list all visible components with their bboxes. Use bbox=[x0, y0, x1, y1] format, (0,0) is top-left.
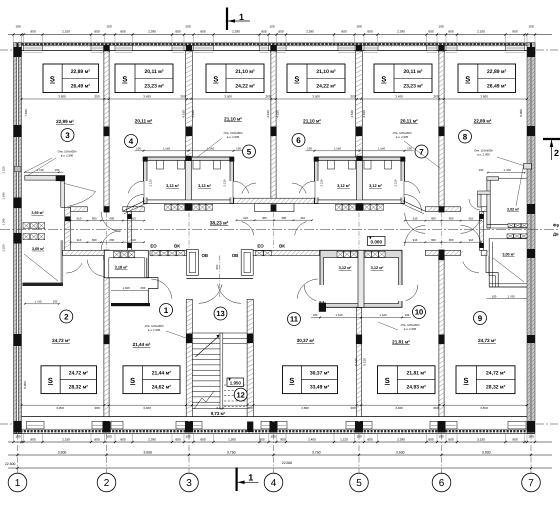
svg-text:3.600: 3.600 bbox=[58, 95, 66, 99]
svg-text:3,00 м²: 3,00 м² bbox=[502, 252, 515, 256]
svg-text:1.780: 1.780 bbox=[508, 294, 515, 298]
svg-text:600: 600 bbox=[175, 30, 180, 34]
svg-text:600: 600 bbox=[120, 30, 125, 34]
svg-text:30,37 м²: 30,37 м² bbox=[297, 338, 315, 343]
svg-text:26,49 м²: 26,49 м² bbox=[71, 83, 91, 89]
corridor lower wall bbox=[63, 250, 105, 255]
svg-text:100: 100 bbox=[270, 434, 275, 438]
svg-text:3: 3 bbox=[186, 478, 192, 489]
door arc top room3 bbox=[127, 195, 144, 212]
stairwell stairs bbox=[186, 278, 253, 280]
corridor dims right bbox=[405, 220, 482, 222]
svg-text:3.500: 3.500 bbox=[224, 95, 232, 99]
svg-text:600: 600 bbox=[448, 437, 453, 441]
axis circle 6 bbox=[432, 473, 451, 492]
svg-text:0.000: 0.000 bbox=[371, 239, 383, 244]
svg-text:4.630: 4.630 bbox=[275, 110, 279, 118]
svg-text:3,12 м²: 3,12 м² bbox=[339, 265, 353, 270]
svg-text:S: S bbox=[464, 376, 469, 385]
svg-text:3.750: 3.750 bbox=[227, 451, 236, 455]
wall axis3 upper bbox=[186, 51, 193, 157]
svg-text:1.540: 1.540 bbox=[207, 146, 214, 150]
svg-text:24,72 м²: 24,72 м² bbox=[52, 338, 70, 343]
svg-text:100: 100 bbox=[528, 25, 533, 29]
svg-text:1.540: 1.540 bbox=[2, 192, 6, 199]
svg-text:10: 10 bbox=[415, 308, 423, 317]
svg-text:900: 900 bbox=[280, 437, 285, 441]
svg-text:1.740: 1.740 bbox=[37, 168, 44, 172]
svg-text:3.400: 3.400 bbox=[143, 95, 151, 99]
svg-text:1: 1 bbox=[239, 12, 244, 22]
svg-text:600: 600 bbox=[110, 238, 115, 242]
level mark 0.000 bbox=[368, 237, 386, 246]
svg-text:21,10 м²: 21,10 м² bbox=[316, 69, 336, 75]
door arc room11 bbox=[297, 279, 318, 299]
svg-text:100: 100 bbox=[438, 434, 443, 438]
svg-text:13: 13 bbox=[216, 309, 224, 318]
svg-text:3,12 м²: 3,12 м² bbox=[369, 183, 383, 188]
svg-text:100: 100 bbox=[53, 299, 58, 303]
svg-text:600: 600 bbox=[200, 437, 205, 441]
svg-text:600: 600 bbox=[120, 437, 125, 441]
svg-text:910: 910 bbox=[413, 238, 418, 242]
svg-text:1.300: 1.300 bbox=[228, 437, 236, 441]
svg-text:2.130: 2.130 bbox=[320, 179, 324, 186]
room9 corner step walls bbox=[486, 256, 498, 287]
table apt bot-3 bbox=[283, 366, 338, 394]
svg-text:S: S bbox=[213, 75, 218, 84]
svg-text:22,89 м²: 22,89 м² bbox=[71, 69, 91, 75]
svg-text:3.650: 3.650 bbox=[480, 406, 488, 410]
svg-text:2.280: 2.280 bbox=[148, 30, 156, 34]
axis circle 7 bbox=[522, 473, 541, 492]
svg-text:33,49 м²: 33,49 м² bbox=[310, 385, 330, 391]
svg-text:24,22 м²: 24,22 м² bbox=[235, 83, 255, 89]
svg-text:100: 100 bbox=[15, 434, 20, 438]
left wall rooms 3,69 bbox=[25, 176, 65, 181]
svg-text:1.240: 1.240 bbox=[2, 218, 6, 225]
svg-text:1.540: 1.540 bbox=[334, 146, 341, 150]
svg-text:3.750: 3.750 bbox=[312, 451, 321, 455]
bottom wall inner face bbox=[22, 416, 528, 418]
svg-text:Фр: Фр bbox=[553, 223, 560, 228]
svg-text:100: 100 bbox=[307, 146, 312, 150]
svg-text:2.220: 2.220 bbox=[2, 166, 6, 173]
svg-text:1: 1 bbox=[15, 478, 21, 489]
svg-text:600: 600 bbox=[261, 30, 266, 34]
svg-text:S: S bbox=[50, 75, 55, 84]
svg-text:8.980: 8.980 bbox=[519, 109, 523, 117]
svg-text:ОВ: ОВ bbox=[202, 253, 209, 258]
axis line bottom left poke bbox=[0, 423, 13, 425]
svg-text:600: 600 bbox=[92, 238, 97, 242]
left wall columns bbox=[14, 47, 22, 57]
svg-text:Дв: Дв bbox=[553, 232, 559, 237]
room circle 5 bbox=[243, 145, 256, 158]
svg-text:S: S bbox=[385, 376, 390, 385]
svg-text:ЕО: ЕО bbox=[257, 244, 264, 249]
left wall bbox=[14, 43, 17, 434]
svg-text:4.630: 4.630 bbox=[350, 110, 354, 118]
svg-text:ЕО: ЕО bbox=[150, 244, 157, 249]
interior wall columns bbox=[103, 127, 109, 137]
svg-text:4.630: 4.630 bbox=[266, 110, 270, 118]
wall axis2 lower bbox=[104, 250, 109, 417]
svg-text:200: 200 bbox=[350, 95, 355, 99]
svg-text:100: 100 bbox=[106, 25, 111, 29]
stair shaft left bbox=[186, 250, 198, 276]
table apt top-2 bbox=[115, 64, 173, 93]
axis circle 5 bbox=[350, 473, 369, 492]
top wall inner face bbox=[22, 50, 528, 52]
room circle 1 bbox=[160, 304, 173, 317]
bottom chain 1 bbox=[8, 441, 552, 443]
door arc room9 bbox=[463, 261, 479, 272]
axis circle 1 bbox=[8, 473, 27, 492]
svg-text:600: 600 bbox=[278, 30, 283, 34]
room circle 7 bbox=[415, 145, 428, 158]
svg-text:2.280: 2.280 bbox=[306, 30, 314, 34]
svg-text:28,32 м²: 28,32 м² bbox=[486, 385, 506, 391]
svg-text:4: 4 bbox=[271, 478, 277, 489]
svg-text:в.о. 2.900: в.о. 2.900 bbox=[396, 135, 409, 139]
axis line top right bbox=[536, 49, 560, 51]
svg-text:в.о. 2.900: в.о. 2.900 bbox=[404, 327, 417, 331]
svg-text:100: 100 bbox=[185, 434, 190, 438]
svg-text:600: 600 bbox=[94, 437, 99, 441]
svg-text:3.950: 3.950 bbox=[56, 406, 64, 410]
wall axis5 upper bbox=[356, 51, 363, 157]
svg-text:600: 600 bbox=[449, 238, 454, 242]
center hall walls bbox=[234, 198, 314, 204]
svg-text:3.600: 3.600 bbox=[480, 95, 488, 99]
svg-text:2.400: 2.400 bbox=[308, 437, 316, 441]
svg-text:3.500: 3.500 bbox=[312, 95, 320, 99]
bottom wall window boxes bbox=[27, 421, 45, 429]
svg-text:900: 900 bbox=[215, 264, 219, 269]
svg-text:100: 100 bbox=[106, 434, 111, 438]
svg-text:600: 600 bbox=[92, 216, 97, 220]
svg-text:100: 100 bbox=[356, 25, 361, 29]
axis line top left bbox=[0, 49, 13, 51]
right wall bbox=[527, 43, 530, 434]
svg-text:3,12 м²: 3,12 м² bbox=[198, 183, 212, 188]
axis line bottom pokes bbox=[536, 423, 560, 425]
svg-text:910: 910 bbox=[77, 238, 82, 242]
door arc top room8 bbox=[405, 195, 422, 212]
bottom chain 3 bbox=[8, 467, 552, 469]
table apt top-6 bbox=[458, 64, 516, 93]
table apt top-5 bbox=[374, 64, 432, 93]
svg-text:1.540: 1.540 bbox=[378, 146, 385, 150]
svg-text:600: 600 bbox=[428, 30, 433, 34]
svg-text:100: 100 bbox=[407, 146, 412, 150]
svg-text:2.220: 2.220 bbox=[2, 244, 6, 251]
corridor dims left bbox=[71, 220, 145, 222]
svg-text:600: 600 bbox=[94, 30, 99, 34]
svg-text:30,37 м²: 30,37 м² bbox=[310, 371, 330, 377]
wall axis6 lower bbox=[439, 250, 444, 417]
svg-text:5: 5 bbox=[356, 478, 362, 489]
svg-text:200: 200 bbox=[94, 406, 99, 410]
svg-text:S: S bbox=[130, 376, 135, 385]
svg-text:3.400: 3.400 bbox=[143, 406, 151, 410]
svg-text:900: 900 bbox=[30, 30, 35, 34]
axis circle 4 bbox=[264, 473, 283, 492]
svg-text:S: S bbox=[289, 376, 294, 385]
svg-text:S: S bbox=[122, 75, 127, 84]
svg-text:24,72 м²: 24,72 м² bbox=[69, 371, 89, 377]
svg-text:1.540: 1.540 bbox=[336, 313, 343, 317]
door arc right room upper bbox=[469, 199, 480, 210]
svg-text:2.280: 2.280 bbox=[148, 437, 156, 441]
top wall texture bbox=[43, 45, 92, 47]
svg-text:22.600: 22.600 bbox=[282, 461, 292, 465]
svg-text:1.590: 1.590 bbox=[123, 286, 130, 290]
table apt top-1 bbox=[43, 64, 99, 93]
svg-text:ВК: ВК bbox=[279, 244, 285, 249]
svg-text:100: 100 bbox=[136, 146, 141, 150]
svg-text:100: 100 bbox=[55, 168, 60, 172]
wall axis5 lower bbox=[356, 308, 361, 417]
room circle 9 bbox=[474, 312, 487, 325]
svg-text:21,81 м²: 21,81 м² bbox=[407, 371, 427, 377]
svg-text:600: 600 bbox=[448, 30, 453, 34]
svg-text:200: 200 bbox=[350, 406, 355, 410]
svg-text:600: 600 bbox=[341, 30, 346, 34]
svg-text:21,10 м²: 21,10 м² bbox=[224, 117, 242, 122]
section mark 1 bottom bbox=[236, 468, 238, 492]
svg-text:22.600: 22.600 bbox=[5, 462, 15, 466]
svg-text:910: 910 bbox=[131, 238, 136, 242]
svg-text:4.630: 4.630 bbox=[182, 110, 186, 118]
svg-text:12: 12 bbox=[237, 390, 245, 399]
svg-text:3,69 м²: 3,69 м² bbox=[31, 211, 44, 215]
svg-text:3.900: 3.900 bbox=[58, 451, 67, 455]
svg-text:910: 910 bbox=[469, 216, 474, 220]
svg-text:910: 910 bbox=[300, 216, 305, 220]
svg-text:100: 100 bbox=[185, 25, 190, 29]
svg-text:в.о. 2.900: в.о. 2.900 bbox=[477, 153, 490, 157]
svg-text:200: 200 bbox=[433, 406, 438, 410]
svg-text:20,11 м²: 20,11 м² bbox=[400, 119, 418, 124]
svg-text:20,11 м²: 20,11 м² bbox=[145, 69, 164, 75]
svg-text:200: 200 bbox=[433, 95, 438, 99]
stair shaft right bbox=[241, 250, 253, 276]
svg-text:S: S bbox=[381, 75, 386, 84]
svg-text:24,72 м²: 24,72 м² bbox=[478, 338, 496, 343]
wall axis2 upper bbox=[104, 51, 109, 212]
svg-text:3.400: 3.400 bbox=[395, 406, 403, 410]
svg-text:200: 200 bbox=[94, 95, 99, 99]
svg-text:6: 6 bbox=[439, 478, 445, 489]
svg-text:2.130: 2.130 bbox=[394, 179, 398, 186]
svg-text:20,11 м²: 20,11 м² bbox=[404, 69, 423, 75]
svg-text:900: 900 bbox=[259, 437, 264, 441]
axis circle 3 bbox=[180, 473, 199, 492]
svg-text:3,18 м²: 3,18 м² bbox=[115, 265, 129, 270]
svg-text:910: 910 bbox=[131, 216, 136, 220]
svg-text:910: 910 bbox=[469, 238, 474, 242]
svg-text:21,44 м²: 21,44 м² bbox=[133, 342, 151, 347]
svg-text:5: 5 bbox=[247, 147, 252, 156]
room circle 4 bbox=[125, 135, 138, 148]
svg-text:4.630: 4.630 bbox=[362, 110, 366, 118]
svg-text:1.540: 1.540 bbox=[163, 146, 170, 150]
svg-text:8: 8 bbox=[463, 132, 468, 141]
svg-text:200: 200 bbox=[180, 95, 185, 99]
svg-text:24,22 м²: 24,22 м² bbox=[316, 83, 336, 89]
bottom rooms dimension line bbox=[22, 404, 528, 406]
svg-text:1.780: 1.780 bbox=[504, 168, 511, 172]
svg-text:100: 100 bbox=[405, 313, 410, 317]
svg-text:900: 900 bbox=[512, 437, 517, 441]
svg-text:910: 910 bbox=[413, 216, 418, 220]
svg-text:5.130: 5.130 bbox=[363, 358, 367, 366]
corridor vestibule wall left bbox=[65, 207, 71, 252]
svg-text:3,12 м²: 3,12 м² bbox=[337, 183, 351, 188]
door arc room3 entry bbox=[68, 192, 96, 207]
svg-text:4: 4 bbox=[129, 137, 134, 146]
top dimension chain bbox=[8, 34, 552, 36]
svg-text:1,950: 1,950 bbox=[230, 381, 242, 386]
top wall window boxes bbox=[24, 45, 43, 50]
svg-text:2.100: 2.100 bbox=[62, 30, 70, 34]
svg-text:ОВ: ОВ bbox=[232, 253, 239, 258]
svg-text:1.540: 1.540 bbox=[380, 313, 387, 317]
table apt top-3 bbox=[206, 64, 264, 93]
svg-text:600: 600 bbox=[282, 216, 287, 220]
svg-text:2.130: 2.130 bbox=[149, 179, 153, 186]
bottom wall band bbox=[14, 428, 536, 430]
svg-text:21,10 м²: 21,10 м² bbox=[235, 69, 255, 75]
svg-text:23,23 м²: 23,23 м² bbox=[144, 83, 164, 89]
svg-text:7: 7 bbox=[528, 478, 534, 489]
svg-text:2.280: 2.280 bbox=[397, 30, 405, 34]
bathroom cluster upper axis5 bbox=[315, 157, 405, 204]
svg-text:2: 2 bbox=[554, 148, 559, 158]
svg-text:38,23 м²: 38,23 м² bbox=[210, 221, 229, 227]
top wall outer band bbox=[14, 42, 536, 44]
room 3,69 lower extension bbox=[60, 240, 62, 285]
svg-text:100: 100 bbox=[438, 25, 443, 29]
vent right wall bbox=[524, 164, 532, 170]
room circle 8 bbox=[459, 130, 472, 143]
svg-text:100: 100 bbox=[479, 168, 484, 172]
bathroom cluster lower axis5 bbox=[320, 250, 402, 307]
svg-text:11: 11 bbox=[290, 315, 298, 324]
svg-text:3.400: 3.400 bbox=[395, 95, 403, 99]
svg-text:1.220: 1.220 bbox=[340, 437, 348, 441]
table apt bot-1 bbox=[41, 366, 97, 394]
svg-text:100: 100 bbox=[15, 25, 20, 29]
stairwell level 1,950 bbox=[227, 378, 244, 387]
svg-text:S: S bbox=[465, 75, 470, 84]
axis extension lines bbox=[17, 434, 19, 473]
bottom wall columns bbox=[14, 422, 22, 433]
room circle 2 bbox=[60, 310, 73, 323]
door arc room1 vestibule bbox=[87, 260, 104, 277]
corridor vestibule wall right bbox=[479, 212, 483, 251]
svg-text:26,49 м²: 26,49 м² bbox=[487, 83, 507, 89]
svg-text:9,73 м²: 9,73 м² bbox=[211, 411, 226, 416]
corridor axis line bbox=[0, 229, 560, 231]
svg-text:600: 600 bbox=[141, 286, 146, 290]
svg-text:7: 7 bbox=[419, 147, 424, 156]
svg-text:2: 2 bbox=[104, 478, 110, 489]
svg-text:1.740: 1.740 bbox=[35, 299, 42, 303]
svg-text:600: 600 bbox=[428, 437, 433, 441]
svg-text:8.950: 8.950 bbox=[23, 381, 27, 389]
svg-text:600: 600 bbox=[431, 216, 436, 220]
room circle 13 bbox=[214, 307, 227, 320]
svg-text:900: 900 bbox=[512, 30, 517, 34]
svg-text:4.600: 4.600 bbox=[301, 406, 309, 410]
svg-text:в.о. 2.900: в.о. 2.900 bbox=[61, 154, 74, 158]
door arc room1 bbox=[151, 279, 172, 299]
svg-text:2.100: 2.100 bbox=[477, 30, 485, 34]
svg-text:S: S bbox=[48, 376, 53, 385]
top rooms dimension line bbox=[22, 98, 528, 100]
bottom chain 2 bbox=[8, 454, 552, 456]
svg-text:600: 600 bbox=[449, 216, 454, 220]
stairwell left wall bbox=[186, 299, 192, 416]
svg-text:600: 600 bbox=[110, 216, 115, 220]
svg-text:1: 1 bbox=[248, 473, 253, 483]
svg-text:S: S bbox=[294, 75, 299, 84]
svg-text:3.600: 3.600 bbox=[396, 451, 405, 455]
svg-text:21,10 м²: 21,10 м² bbox=[303, 119, 321, 124]
section mark 2 right bbox=[543, 138, 560, 140]
svg-text:ВК: ВК bbox=[174, 244, 180, 249]
svg-text:600: 600 bbox=[367, 30, 372, 34]
svg-text:2.280: 2.280 bbox=[232, 30, 240, 34]
svg-text:2: 2 bbox=[64, 312, 69, 321]
svg-text:600: 600 bbox=[175, 437, 180, 441]
svg-text:23,23 м²: 23,23 м² bbox=[403, 83, 423, 89]
svg-text:100: 100 bbox=[313, 313, 318, 317]
svg-text:22,89 м²: 22,89 м² bbox=[56, 119, 74, 124]
svg-text:100: 100 bbox=[269, 25, 274, 29]
room circle 11 bbox=[288, 313, 301, 326]
svg-text:600: 600 bbox=[431, 238, 436, 242]
svg-text:3.600: 3.600 bbox=[143, 451, 152, 455]
bathroom cluster upper axis3 bbox=[144, 157, 234, 204]
svg-text:600: 600 bbox=[367, 437, 372, 441]
svg-text:6: 6 bbox=[296, 136, 301, 145]
svg-text:2.280: 2.280 bbox=[397, 437, 405, 441]
table apt bot-2 bbox=[123, 366, 180, 394]
stairwell right wall bbox=[247, 299, 253, 416]
svg-text:910: 910 bbox=[243, 216, 248, 220]
svg-text:24,93 м²: 24,93 м² bbox=[407, 385, 427, 391]
svg-text:2.150: 2.150 bbox=[62, 437, 70, 441]
corridor axis verticals bbox=[106, 213, 108, 250]
room circle 3 bbox=[61, 129, 74, 142]
svg-text:600: 600 bbox=[262, 216, 267, 220]
corridor splay walls bbox=[403, 201, 425, 211]
right wall rooms bbox=[487, 177, 490, 228]
svg-text:7.480: 7.480 bbox=[24, 109, 28, 117]
room circle 10 bbox=[413, 306, 426, 319]
svg-text:2.130: 2.130 bbox=[223, 179, 227, 186]
svg-text:3,02 м²: 3,02 м² bbox=[507, 207, 520, 211]
corridor vestibule wall axis2 bbox=[127, 212, 131, 251]
svg-text:4.630: 4.630 bbox=[191, 110, 195, 118]
room 3,18 at axis2 bbox=[104, 250, 148, 277]
svg-text:9: 9 bbox=[478, 314, 483, 323]
svg-text:в.о. 2.900: в.о. 2.900 bbox=[227, 135, 240, 139]
